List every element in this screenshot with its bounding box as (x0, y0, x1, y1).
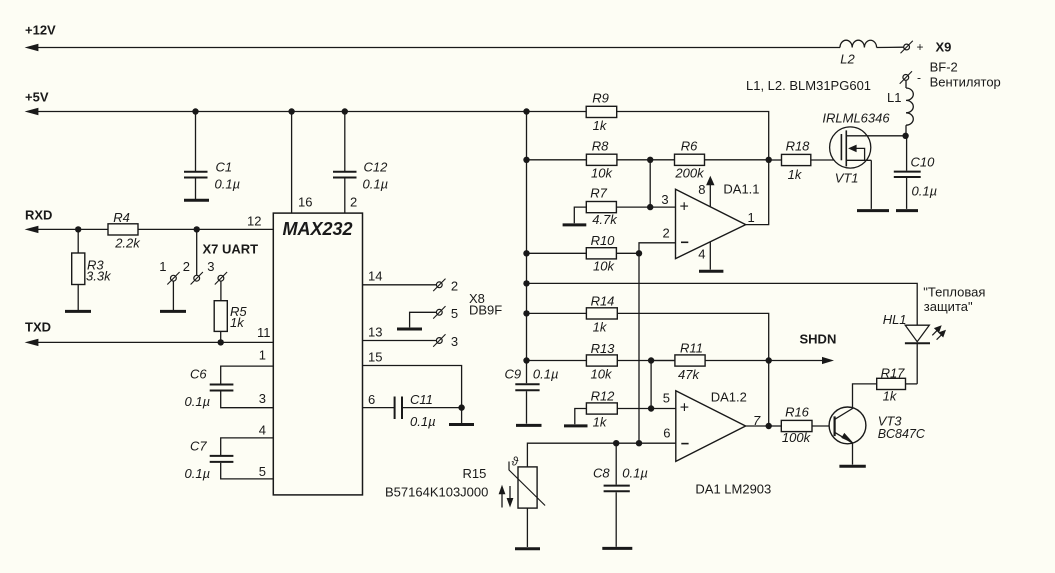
IC MAX232 U-box (273, 213, 362, 495)
svg-text:RXD: RXD (25, 208, 52, 223)
svg-text:C6: C6 (190, 367, 207, 382)
wire VT3 collector (853, 384, 877, 409)
wire R8 line (527, 159, 587, 161)
svg-text:R4: R4 (113, 210, 130, 225)
svg-text:R14: R14 (591, 294, 615, 309)
svg-text:8: 8 (698, 182, 705, 197)
svg-text:-: - (917, 71, 921, 85)
wire right rail R11 to output (768, 361, 770, 427)
svg-text:2: 2 (183, 259, 190, 274)
node RXD arrow (25, 226, 39, 233)
op-amp DA1.1 (676, 189, 746, 258)
connector X8 pin 5 (436, 309, 442, 315)
ground C10 (896, 209, 918, 212)
svg-text:0.1µ: 0.1µ (533, 367, 559, 382)
R15 trend arrows (501, 492, 503, 508)
resistor R10 (586, 248, 616, 259)
svg-text:DA1.2: DA1.2 (711, 390, 747, 405)
wire R6 to right rail (705, 159, 769, 161)
svg-text:4.7k: 4.7k (592, 212, 618, 227)
thermistor R15 (518, 467, 537, 508)
svg-text:47k: 47k (678, 367, 700, 382)
ground R12 (564, 424, 588, 427)
svg-text:100k: 100k (782, 430, 812, 445)
svg-text:0.1µ: 0.1µ (912, 184, 938, 199)
inductor L2 (840, 40, 877, 47)
svg-text:"Тепловая: "Тепловая (923, 285, 985, 300)
svg-text:0.1µ: 0.1µ (185, 466, 211, 481)
wire R13 to R11 (617, 360, 675, 362)
svg-text:Вентилятор: Вентилятор (930, 75, 1001, 90)
node R8 R6 junction (647, 157, 653, 163)
wire R10 to junction (616, 252, 639, 254)
node X7 junction (194, 226, 200, 232)
resistor R17 (877, 378, 906, 389)
svg-text:3: 3 (207, 259, 214, 274)
svg-text:0.1µ: 0.1µ (215, 177, 241, 192)
capacitor C8 (615, 443, 617, 484)
wire R13 junction to pin5 (650, 361, 652, 409)
svg-text:11: 11 (257, 325, 271, 340)
svg-text:защита": защита" (924, 299, 973, 314)
node R11 SHDN junction (766, 357, 772, 363)
svg-text:10k: 10k (593, 259, 615, 274)
svg-text:C11: C11 (410, 392, 433, 407)
svg-text:C7: C7 (190, 439, 207, 454)
resistor R6 (675, 154, 705, 165)
svg-text:X7 UART: X7 UART (203, 242, 259, 257)
wire VT3 emitter to ground (852, 443, 854, 465)
svg-text:13: 13 (368, 325, 382, 340)
wire R14 line (527, 312, 587, 314)
svg-text:3.3k: 3.3k (86, 269, 112, 284)
ground C11 (449, 423, 474, 426)
wire R14 to right rail (617, 313, 768, 360)
svg-text:R12: R12 (591, 389, 616, 404)
svg-text:1k: 1k (788, 167, 803, 182)
svg-text:R9: R9 (592, 91, 609, 106)
node R3 junction (75, 226, 81, 232)
ground R7 (563, 223, 587, 226)
ground DA1.1 pin4 (699, 270, 723, 273)
wire X8 pin5 to ground (410, 312, 437, 327)
capacitor C12 (344, 112, 346, 172)
op-amp DA1.2 (676, 391, 746, 462)
wire pin16 (291, 112, 293, 214)
svg-text:L2: L2 (840, 52, 855, 67)
ground X8 pin5 (397, 328, 422, 331)
svg-text:VT1: VT1 (835, 171, 859, 186)
svg-text:L1: L1 (887, 90, 901, 105)
svg-text:SHDN: SHDN (800, 332, 837, 347)
node C8 junction (613, 440, 619, 446)
ground X7 pin1 (160, 310, 186, 313)
wire X9 pin2 to L1 (905, 81, 907, 88)
svg-text:IRLML6346: IRLML6346 (822, 111, 890, 126)
svg-text:200k: 200k (674, 166, 705, 181)
svg-text:B57164K103J000: B57164K103J000 (385, 485, 488, 500)
inductor L1 (906, 88, 913, 125)
node +12V arrow (25, 44, 39, 51)
svg-text:R7: R7 (590, 186, 607, 201)
svg-text:2: 2 (451, 279, 458, 294)
node +5V arrow (25, 108, 39, 115)
ground C8 (602, 547, 632, 550)
svg-text:2.2k: 2.2k (114, 236, 141, 251)
connector X9 pin 1 (904, 44, 910, 50)
wire R8 to R6 (617, 159, 675, 161)
svg-text:1k: 1k (883, 389, 898, 404)
wire C11 to ground (461, 408, 463, 423)
wire DA1.2 pin6 line (527, 443, 675, 467)
svg-text:1k: 1k (593, 320, 608, 335)
wire R10 line (527, 252, 587, 254)
node C11 junction (458, 404, 464, 410)
svg-text:HL1: HL1 (883, 312, 907, 327)
wire DA1.1 output pin1 (746, 160, 769, 225)
node TXD arrow (25, 339, 39, 346)
transistor VT1 MOSFET (830, 127, 871, 168)
svg-text:3: 3 (661, 192, 668, 207)
svg-text:ϑ: ϑ (512, 455, 519, 469)
wire L2 to X9 pin1 (877, 46, 904, 48)
wire X7 pin2 up (196, 229, 198, 275)
svg-text:4: 4 (259, 423, 266, 438)
node R13 R11 junction (648, 357, 654, 363)
node right rail junction (766, 157, 772, 163)
wire junction to DA1.1 pin2 (639, 243, 676, 254)
resistor R7 (574, 207, 586, 223)
svg-text:2: 2 (662, 226, 669, 241)
node bus R9 junction (523, 108, 529, 114)
svg-text:1k: 1k (593, 118, 608, 133)
wire RXD (32, 228, 273, 230)
resistor R14 (586, 308, 617, 319)
svg-text:0.1µ: 0.1µ (185, 394, 211, 409)
resistor R11 (675, 355, 705, 366)
svg-text:R6: R6 (681, 139, 698, 154)
svg-text:MAX232: MAX232 (283, 219, 353, 239)
wire DA1.2 output pin7 (746, 425, 769, 427)
wire R11 line (651, 360, 675, 362)
pin 8 power arrow (709, 184, 711, 207)
node pin6 vertical junction (636, 440, 642, 446)
svg-text:DB9F: DB9F (469, 303, 502, 318)
node drain junction (902, 133, 908, 139)
ground C1 (184, 199, 209, 202)
svg-text:0.1µ: 0.1µ (410, 414, 436, 429)
svg-text:C8: C8 (593, 466, 610, 481)
svg-text:DA1.1: DA1.1 (723, 182, 759, 197)
wire TXD (32, 341, 273, 343)
svg-text:+12V: +12V (25, 23, 56, 38)
svg-text:2: 2 (350, 195, 357, 210)
svg-text:C10: C10 (911, 155, 936, 170)
svg-text:R16: R16 (785, 405, 810, 420)
svg-text:1k: 1k (593, 415, 608, 430)
resistor R9 (586, 106, 617, 117)
resistor R13 (586, 355, 617, 366)
svg-text:7: 7 (753, 413, 761, 428)
ground R3 (65, 310, 91, 313)
node bus R13 junction (523, 357, 529, 363)
node bus long-bus junction (523, 280, 529, 286)
svg-text:X9: X9 (936, 40, 952, 55)
LED HL1 (905, 325, 929, 342)
net SHDN (769, 360, 824, 362)
svg-text:R15: R15 (463, 466, 487, 481)
resistor R4 (108, 224, 138, 235)
wire +12V rail (32, 47, 840, 49)
node bus R10 junction (523, 250, 529, 256)
node pin3 junction (647, 204, 653, 210)
svg-text:R11: R11 (680, 341, 703, 356)
svg-text:10k: 10k (591, 166, 613, 181)
svg-text:16: 16 (298, 195, 312, 210)
svg-text:0.1µ: 0.1µ (622, 466, 648, 481)
svg-text:3: 3 (259, 391, 266, 406)
resistor R18 (769, 159, 782, 161)
wire long bus to HL1 (527, 283, 918, 325)
svg-text:5: 5 (451, 306, 458, 321)
node pin5 junction (648, 405, 654, 411)
node DA1.2 output junction (766, 423, 772, 429)
svg-text:1: 1 (159, 259, 166, 274)
connector X8 pin 3 (436, 338, 442, 344)
resistor R12 (575, 409, 587, 425)
wire +5V rail (32, 111, 527, 113)
node pin16 junction (288, 108, 294, 114)
svg-text:R18: R18 (786, 139, 811, 154)
svg-text:L1, L2. BLM31PG601: L1, L2. BLM31PG601 (746, 78, 871, 93)
node R10 junction (636, 250, 642, 256)
svg-text:14: 14 (368, 269, 382, 284)
svg-text:12: 12 (247, 214, 261, 229)
connector X7 pin 3 (218, 275, 224, 281)
svg-text:1: 1 (748, 210, 755, 225)
svg-text:C9: C9 (505, 367, 522, 382)
capacitor C9 (526, 361, 528, 384)
ground C9 (516, 424, 542, 427)
wire R11 to right rail (705, 360, 769, 362)
svg-text:R10: R10 (591, 233, 616, 248)
svg-text:1: 1 (259, 348, 266, 363)
node bus R14 junction (523, 310, 529, 316)
svg-text:5: 5 (259, 464, 266, 479)
node C1 junction (192, 108, 198, 114)
svg-text:TXD: TXD (25, 320, 51, 335)
svg-text:1k: 1k (230, 315, 245, 330)
HL1 light arrows (932, 330, 938, 336)
resistor R8 (586, 154, 617, 165)
connector X8 pin 2 (436, 282, 442, 288)
capacitor C10 (906, 136, 908, 171)
wire R13 line (527, 360, 587, 362)
connector X9 pin 2 (903, 75, 909, 81)
connector X7 pin 1 (171, 275, 177, 281)
svg-text:+5V: +5V (25, 90, 49, 105)
connector X7 pin 2 (194, 275, 200, 281)
node bus R8 junction (523, 157, 529, 163)
resistor R3 (77, 229, 79, 253)
svg-text:C1: C1 (216, 160, 233, 175)
resistor R5 (220, 281, 222, 301)
svg-text:0.1µ: 0.1µ (363, 177, 389, 192)
ground R15 (515, 547, 540, 550)
transistor VT3 (829, 407, 866, 444)
capacitor C11 (394, 397, 396, 420)
svg-text:C12: C12 (364, 160, 389, 175)
wire +5V bus to R9 (527, 111, 587, 113)
svg-text:6: 6 (663, 426, 670, 441)
resistor R16 (769, 425, 782, 427)
ground VT1 source (857, 209, 889, 212)
svg-text:+: + (680, 199, 689, 216)
svg-text:R13: R13 (591, 341, 616, 356)
svg-text:+: + (917, 40, 924, 54)
svg-text:R17: R17 (881, 366, 906, 381)
svg-text:4: 4 (698, 247, 705, 262)
pin 4 ground (709, 242, 711, 270)
svg-text:+: + (680, 400, 689, 417)
wire R9 to right rail (617, 112, 769, 160)
node C12 junction (342, 108, 348, 114)
svg-text:3: 3 (451, 334, 458, 349)
svg-text:BF-2: BF-2 (930, 60, 958, 75)
wire X7 pin1 to ground (172, 281, 174, 310)
svg-text:10k: 10k (591, 367, 613, 382)
capacitor C1 (195, 112, 197, 172)
svg-text:5: 5 (663, 391, 670, 406)
svg-text:BC847C: BC847C (878, 427, 926, 441)
node R5 junction (218, 339, 224, 345)
svg-text:6: 6 (368, 392, 375, 407)
wire main bus vertical (526, 112, 528, 361)
svg-text:DA1 LM2903: DA1 LM2903 (695, 482, 771, 497)
wire L1 to drain node (905, 125, 907, 136)
svg-text:R8: R8 (592, 139, 609, 154)
ground VT3 (839, 465, 865, 468)
wire junction to DA1.1 pin3 (649, 160, 651, 207)
svg-text:15: 15 (368, 350, 382, 365)
wire R10 junction down to pin6 net (638, 253, 640, 443)
